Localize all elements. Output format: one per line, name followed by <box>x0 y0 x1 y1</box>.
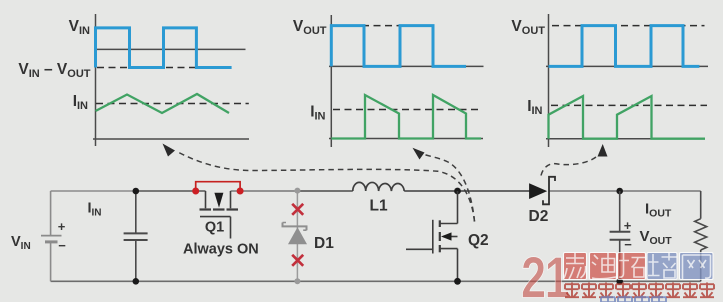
inductor L1 <box>353 182 404 191</box>
plot3 vertical axis <box>548 14 550 147</box>
plot1 dashed level V_IN-V_OUT <box>97 67 231 69</box>
svg-text:D1: D1 <box>314 235 334 252</box>
svg-text:Always ON: Always ON <box>183 242 259 258</box>
watermark glyph yi (red) <box>564 253 587 280</box>
plot1 time axis <box>93 138 249 140</box>
svg-text:−: − <box>624 237 632 252</box>
plot2 V waveform (blue) <box>331 26 466 67</box>
load resistor <box>695 191 707 281</box>
top rail D1 to L1 <box>297 190 352 192</box>
red X below D1 <box>292 255 303 266</box>
node Q2 source <box>454 278 461 285</box>
plot2 V baseline <box>329 65 484 67</box>
Q1 red node right <box>237 188 244 195</box>
plot1 vertical axis <box>95 14 97 146</box>
plot1 zero line <box>96 48 246 50</box>
node D1 top (gray) <box>294 188 300 194</box>
svg-text:−: − <box>58 238 66 253</box>
Q1 red node left <box>192 188 199 195</box>
svg-text:D2: D2 <box>529 208 549 225</box>
watermark glyph wang (blue) <box>680 253 714 280</box>
watermark glyph tuo (red) <box>618 253 646 280</box>
plot1 V waveform (blue) <box>96 28 232 68</box>
diode D1 branch wire <box>296 191 298 281</box>
plot2 I waveform (green) <box>331 95 481 139</box>
Q2 body arrow <box>441 232 452 240</box>
top rail left (gray) <box>51 190 136 192</box>
input capacitor <box>124 191 148 281</box>
bottom rail <box>51 280 701 282</box>
svg-text:Q2: Q2 <box>468 232 489 249</box>
node input cap bottom <box>133 278 140 285</box>
plot3 V waveform (blue) <box>549 26 700 67</box>
transistor Q2 <box>406 191 458 281</box>
svg-text:+: + <box>624 218 632 233</box>
plot2 dashed top level <box>362 25 434 27</box>
plot1 dashed level I_IN <box>96 103 249 105</box>
plot2 dashed level I_IN <box>333 109 482 111</box>
diode D1 (schottky, gray) <box>283 223 308 245</box>
svg-text:L1: L1 <box>370 198 388 215</box>
red X above D1 <box>292 204 303 215</box>
top rail D2 to right <box>549 190 701 192</box>
plot3 dashed top level <box>552 25 705 27</box>
node D1 bottom (gray) <box>294 278 300 284</box>
plot3 I waveform (green) <box>549 96 706 139</box>
top rail Q1 to D1 <box>231 190 298 192</box>
top rail L1 to D2 <box>404 190 529 192</box>
dashed arrow to plot3 <box>541 144 608 176</box>
Q1 always-on red bypass wire <box>196 182 240 191</box>
dashed arrow to plot2 <box>413 148 475 222</box>
plot3 dashed level I_IN <box>551 104 707 106</box>
plot3 time axis <box>546 138 701 140</box>
dashed arrow to plot1 <box>163 144 475 222</box>
transistor Q1 (series FET) <box>200 191 239 239</box>
node output top <box>616 188 623 195</box>
svg-text:Q1: Q1 <box>205 220 224 236</box>
watermark bottom blue sliver <box>601 296 666 302</box>
plot3 V baseline <box>546 65 708 67</box>
svg-text:21: 21 <box>521 246 569 302</box>
watermark slogan row <box>565 283 714 298</box>
Q1 body arrow <box>214 193 223 208</box>
plot2 time axis <box>329 138 483 140</box>
node Q2 drain / switch node <box>454 188 461 195</box>
svg-text:+: + <box>58 219 66 234</box>
node input cap top <box>133 188 140 195</box>
diode D2 (schottky) <box>529 177 555 205</box>
plot2 vertical axis <box>330 15 332 147</box>
node output bottom <box>616 278 623 285</box>
top rail cap to Q1 <box>136 190 206 192</box>
watermark glyph pei (blue) <box>647 253 677 280</box>
battery V_IN <box>41 191 62 281</box>
plot1 I waveform (green) <box>96 94 230 113</box>
watermark glyph di (red) <box>590 253 617 280</box>
output capacitor <box>610 191 631 281</box>
